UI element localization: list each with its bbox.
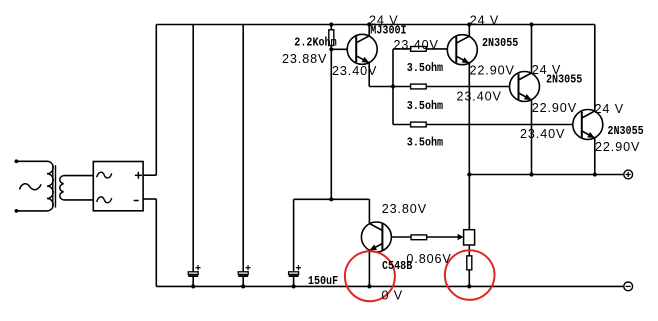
svg-text:24 V: 24 V [470,14,500,28]
svg-text:23.88V: 23.88V [282,52,327,66]
svg-text:2N3055: 2N3055 [607,125,644,138]
svg-text:2.2Kohm: 2.2Kohm [294,37,337,50]
svg-text:C548B: C548B [382,260,413,273]
svg-text:23.80V: 23.80V [382,202,427,216]
svg-text:24 V: 24 V [595,102,625,116]
svg-text:3.5ohm: 3.5ohm [407,62,444,75]
svg-text:22.90V: 22.90V [532,101,577,115]
svg-text:3.5ohm: 3.5ohm [407,101,444,114]
svg-text:23.40V: 23.40V [520,127,565,141]
svg-text:22.90V: 22.90V [470,64,515,78]
svg-text:23.40V: 23.40V [394,38,439,52]
svg-text:0 V: 0 V [382,288,404,302]
svg-text:3.5ohm: 3.5ohm [407,137,444,150]
svg-text:MJ300I: MJ300I [370,25,406,38]
svg-text:150uF: 150uF [308,275,338,288]
svg-text:22.90V: 22.90V [595,140,640,154]
svg-text:23.40V: 23.40V [457,89,502,103]
svg-text:2N3055: 2N3055 [482,37,519,50]
svg-text:0.806V: 0.806V [406,252,451,266]
svg-text:2N3055: 2N3055 [546,74,583,87]
svg-text:23.40V: 23.40V [332,64,377,78]
